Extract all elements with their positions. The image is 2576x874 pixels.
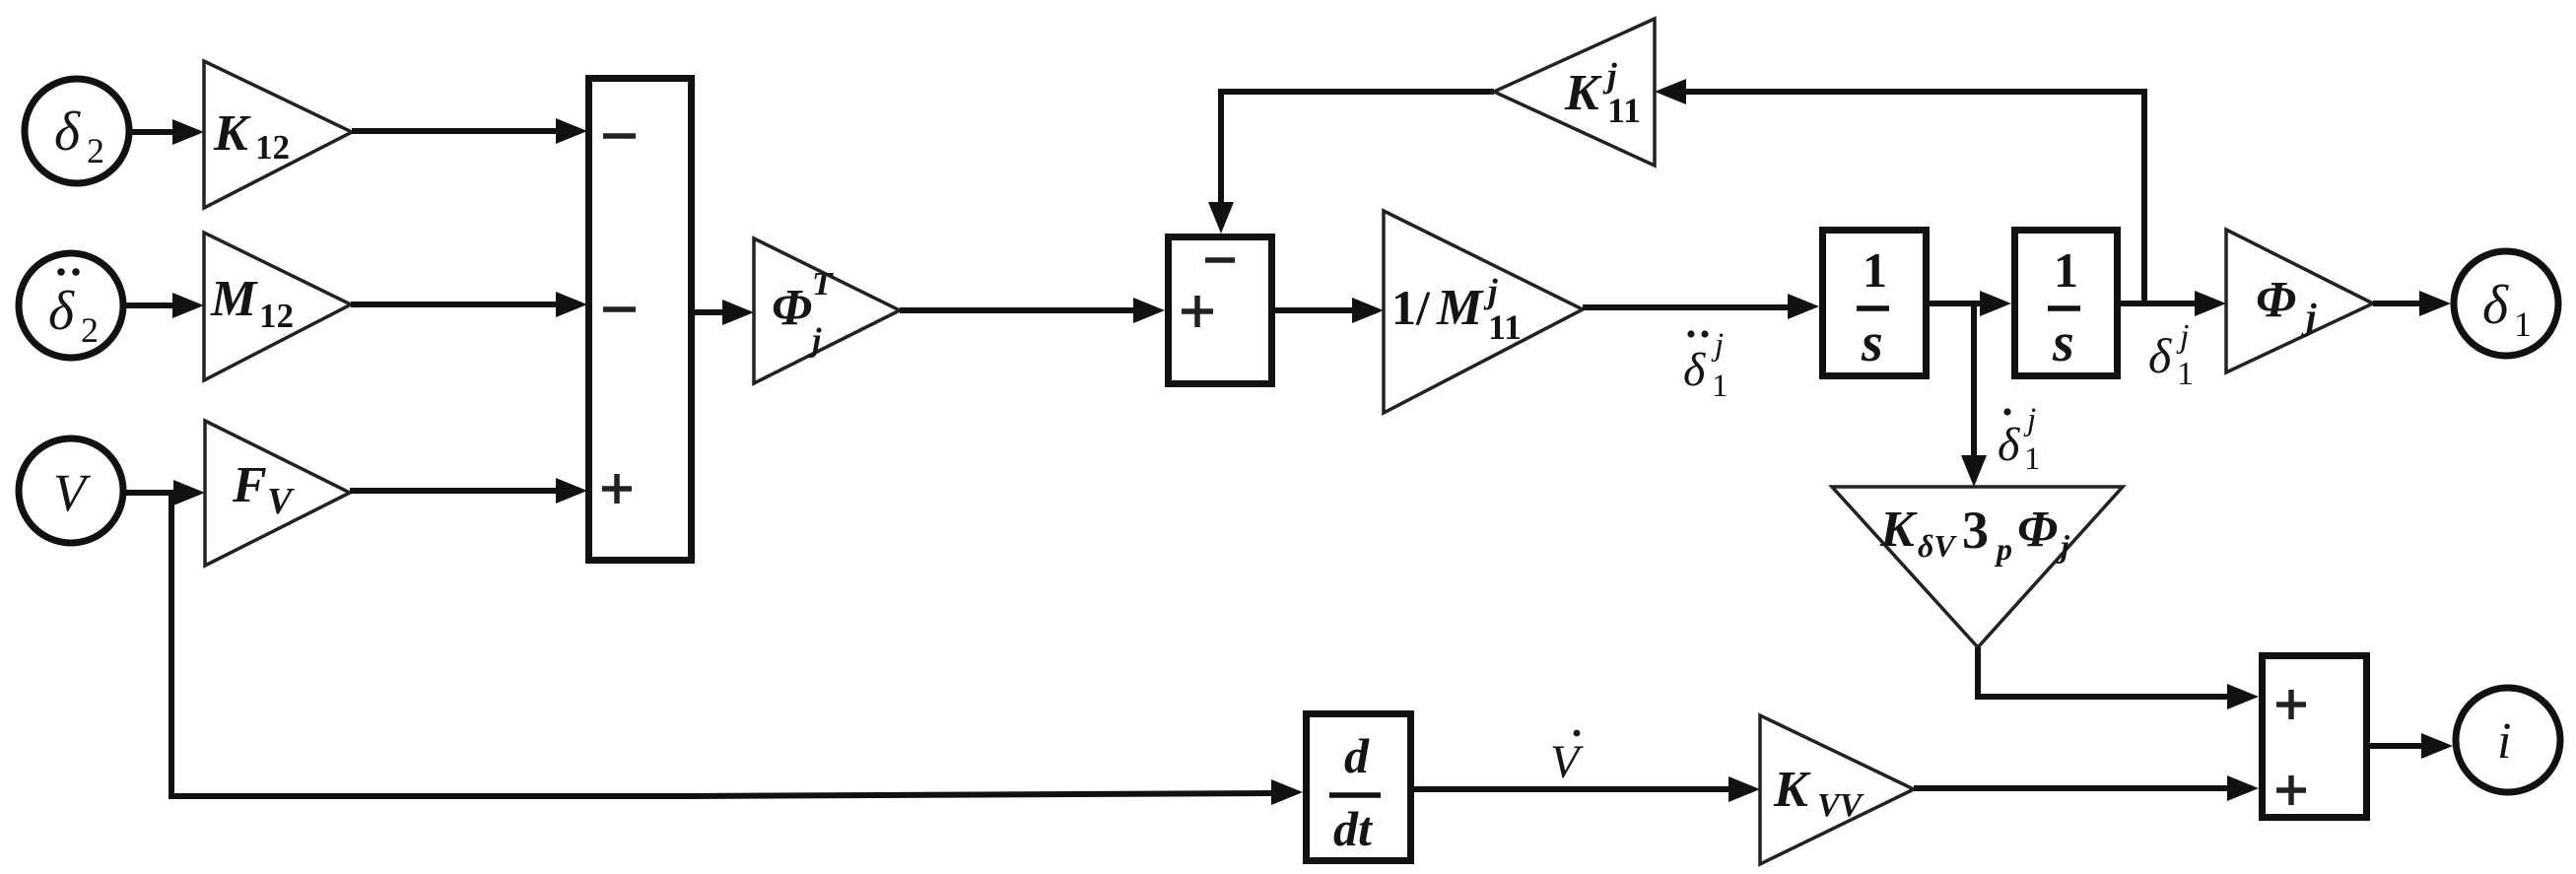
wire KVV to final sum box [1914,775,2259,801]
wire V to FV with arrowhead [126,480,205,505]
svg-text:dt: dt [1333,801,1374,856]
final sum box plus-plus [2263,656,2367,818]
gain Phi_j output triangle [2226,230,2373,372]
integrator block 1/s second [2015,231,2118,376]
label dot delta1^j [1998,402,2041,477]
wire Phi_j to delta1 circle [2373,291,2451,316]
node delta1 output circle [2454,251,2558,356]
wire summing rectangle to PhiT [695,300,754,325]
wire delta2 to K12 with arrowhead [132,119,204,145]
svg-text:p: p [1994,531,2012,567]
svg-text:V: V [267,481,295,522]
svg-text:s: s [1861,312,1883,373]
svg-text:1: 1 [1712,369,1729,404]
svg-text:M: M [1436,280,1484,336]
wire integrator1 to integrator2 [1930,291,2011,316]
svg-text:11: 11 [1488,307,1522,347]
svg-text:δV: δV [1918,528,1957,564]
svg-text:1: 1 [2177,356,2194,392]
wire d/dt to KVV [1414,776,1760,802]
gain KVV triangle [1760,715,1914,864]
derivative block d/dt [1307,714,1411,861]
svg-text:F: F [232,457,267,513]
gain 1/M11 triangle [1384,211,1583,413]
gain PhiT triangle [754,238,900,383]
svg-text:K: K [1773,762,1811,818]
svg-text:V: V [1550,736,1584,788]
svg-text:s: s [2052,312,2074,373]
wire KdV triangle to final sum box [1978,647,2259,709]
svg-text:i: i [2497,713,2511,770]
svg-text:1: 1 [2054,242,2078,298]
svg-text:VV: VV [1817,787,1864,824]
gain K12 triangle [204,61,352,208]
svg-text:δ: δ [2482,275,2509,336]
svg-text:T: T [812,266,834,303]
svg-text:12: 12 [259,297,294,335]
svg-text:1: 1 [2514,304,2532,344]
label V dot [1550,730,1584,788]
wire PhiT to small sum box [900,298,1165,323]
svg-text:12: 12 [255,128,290,167]
svg-text:Φ: Φ [2017,502,2058,558]
svg-text:2: 2 [81,310,99,350]
small sum box plus-minus [1169,237,1272,384]
svg-text:Φ: Φ [772,280,812,336]
node delta2 input circle [25,79,129,183]
svg-text:δ: δ [2148,328,2172,383]
feedback wire K11 output down into sum box [1208,92,1494,234]
label ddot delta1^j [1683,327,1729,404]
svg-text:M: M [210,271,258,327]
svg-text:K: K [1879,502,1918,558]
wire 1/M to integrator 1 [1583,294,1819,319]
svg-text:δ: δ [1683,344,1706,396]
wire FV to summing rectangle [350,478,587,504]
svg-text:3: 3 [1962,501,1989,560]
wire final sum box to node i [2370,733,2453,759]
svg-text:1/: 1/ [1391,280,1431,335]
svg-text:d: d [1344,728,1370,783]
gain K11 feedback triangle pointing left [1494,19,1655,166]
label delta1^j output of integrator2 [2148,318,2194,392]
node V input circle [19,438,123,543]
wire K12 to summing rectangle [352,118,587,144]
wire integrator2 to Phi_j triangle [2121,291,2226,316]
gain FV triangle [205,421,350,566]
svg-text:K: K [213,105,251,162]
svg-text:11: 11 [1607,91,1641,130]
feedback wire up from node after integrator2 [1655,79,2144,303]
branch wire from V down and along bottom to d/dt [171,493,1303,805]
svg-text:δ: δ [54,101,81,163]
branch wire down to KdV triangle with arrowhead [1961,303,1987,487]
gain M12 triangle [204,233,351,380]
summing rectangle block [589,79,692,561]
svg-text:δ: δ [1998,419,2020,471]
wire M12 to summing rectangle [351,292,587,317]
svg-text:K: K [1564,65,1602,121]
integrator block 1/s first [1823,231,1927,376]
wire sum box to 1/M triangle [1275,298,1384,323]
svg-text:1: 1 [2024,441,2041,477]
gain KdV inverted triangle [1832,487,2123,647]
node i output circle [2456,688,2560,792]
svg-text:2: 2 [87,131,104,170]
svg-text:1: 1 [1863,242,1887,298]
node ddot-delta2 input circle [19,253,123,358]
wire ddot-delta2 to M12 with arrowhead [126,293,204,318]
svg-text:δ: δ [48,281,75,342]
svg-text:Φ: Φ [2256,272,2296,328]
